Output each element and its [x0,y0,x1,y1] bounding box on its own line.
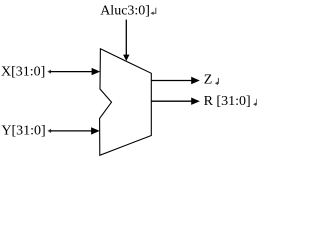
arrowhead: Y into ALU left edge [91,127,100,134]
svg-text:Y[31:0]: Y[31:0] [1,123,45,138]
wire: Z output from ALU right edge [151,80,192,82]
arrowhead: Z output [191,77,200,84]
wire: Aluc control bus into ALU top [125,20,127,56]
svg-text:X[31:0]: X[31:0] [1,65,45,80]
pilcrow return mark after Z [215,78,219,85]
return mark arrowhead at Y wire start [47,129,51,133]
arrowhead: R output [191,98,200,105]
wire: Y input to ALU [50,130,92,132]
wire: R output from ALU right edge [151,100,192,102]
svg-text:Z: Z [204,73,213,88]
ALU U1 body [100,49,152,156]
svg-text:R [31:0]: R [31:0] [204,94,251,109]
return mark arrowhead at X wire start [47,70,51,74]
arrowhead: control into ALU top edge [123,55,129,61]
svg-text:Aluc3:0]: Aluc3:0] [100,3,150,18]
pilcrow return mark after R [31:0] (clipped at edge) [253,99,257,106]
wire: X input to ALU [50,71,93,73]
pilcrow return mark after Aluc3:0] [151,8,156,15]
arrowhead: X into ALU left edge [92,68,101,75]
